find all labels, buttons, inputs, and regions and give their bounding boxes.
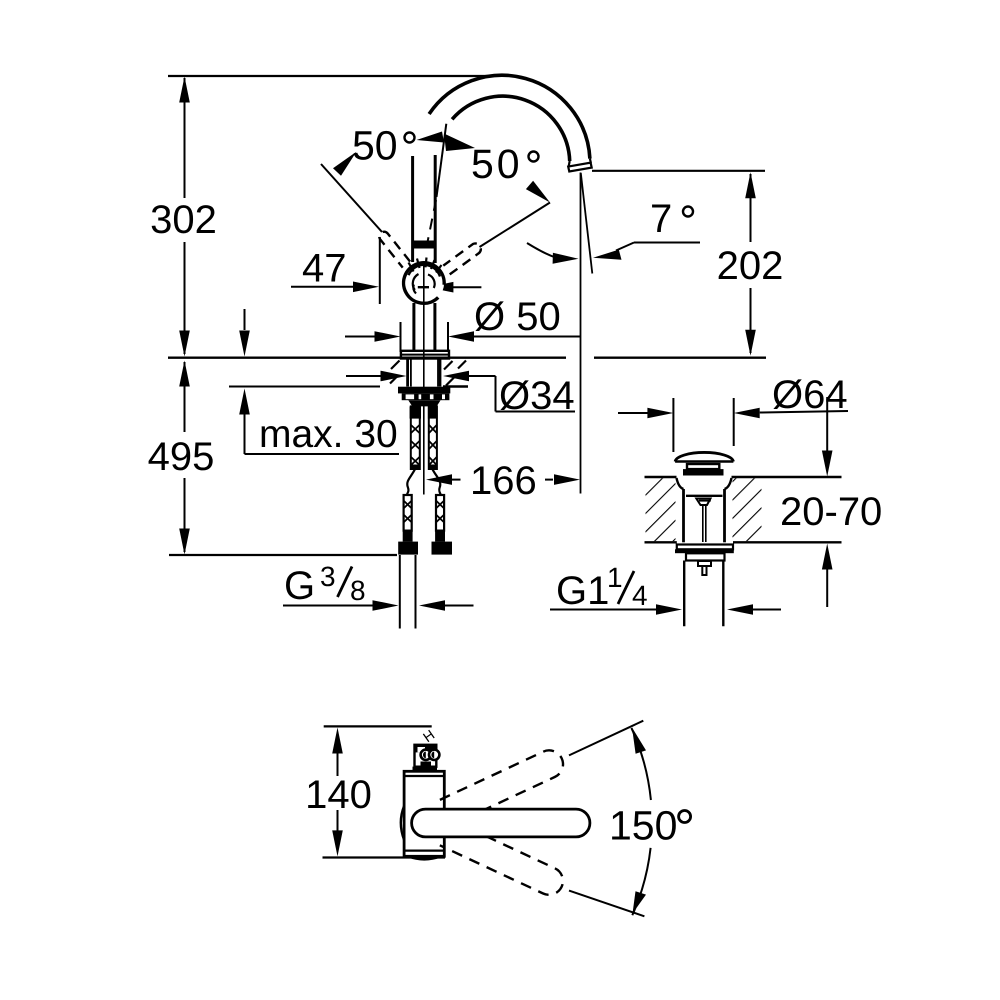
svg-text:3: 3 [320, 561, 336, 592]
svg-text:G: G [284, 564, 315, 608]
svg-text:166: 166 [470, 459, 537, 503]
svg-text:50: 50 [352, 123, 398, 169]
svg-text:47: 47 [302, 247, 347, 291]
svg-text:140: 140 [305, 773, 372, 817]
svg-text:G1: G1 [556, 569, 609, 613]
svg-text:202: 202 [717, 244, 784, 288]
svg-text:1: 1 [607, 562, 623, 593]
svg-text:302: 302 [150, 198, 217, 242]
svg-text:max. 30: max. 30 [259, 413, 398, 456]
svg-text:7: 7 [650, 197, 672, 241]
svg-text:Ø64: Ø64 [772, 373, 848, 417]
svg-text:150: 150 [609, 803, 677, 849]
svg-text:4: 4 [632, 580, 648, 611]
svg-text:495: 495 [148, 435, 215, 479]
svg-text:Ø 50: Ø 50 [474, 295, 561, 339]
svg-text:50: 50 [471, 141, 523, 187]
svg-text:20-70: 20-70 [780, 490, 882, 534]
svg-text:Ø34: Ø34 [499, 374, 575, 418]
svg-text:8: 8 [350, 575, 366, 606]
